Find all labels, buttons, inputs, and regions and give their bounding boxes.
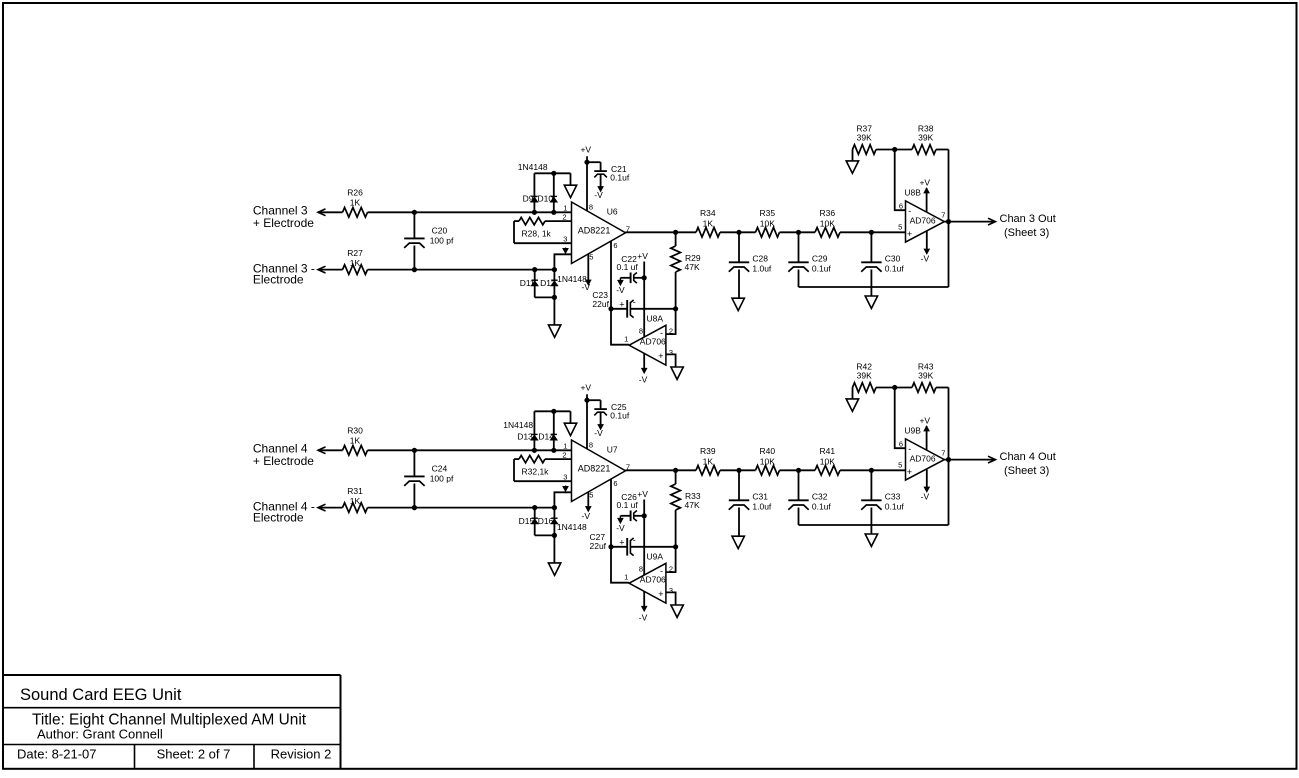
svg-text:D9: D9: [523, 194, 534, 204]
junction: [552, 505, 557, 510]
svg-text:-V: -V: [582, 282, 591, 292]
capacitor C33 0.1uf: [870, 470, 872, 500]
wire feedback vertical: [948, 150, 950, 288]
svg-text:3: 3: [563, 235, 567, 244]
svg-text:1K: 1K: [350, 496, 361, 506]
capacitor C32 0.1uf: [798, 470, 800, 500]
svg-text:Electrode: Electrode: [253, 273, 304, 287]
capacitor C26 0.1 uf: [634, 515, 644, 517]
svg-text:R35: R35: [760, 208, 776, 218]
svg-text:U9B: U9B: [904, 425, 921, 435]
wire: [368, 507, 555, 509]
svg-text:1: 1: [624, 335, 628, 344]
svg-text:22uf: 22uf: [590, 541, 607, 551]
wire to Chan 3 Out: [944, 221, 995, 223]
wire: [720, 469, 756, 471]
svg-text:-: -: [908, 206, 911, 216]
diode D16 1N4148: [553, 508, 555, 536]
svg-text:1K: 1K: [350, 197, 361, 207]
wire: [876, 387, 912, 389]
svg-text:-V: -V: [639, 613, 648, 623]
junction: [892, 147, 897, 152]
power -V U8A pin4: [643, 353, 645, 369]
svg-text:+V: +V: [919, 415, 930, 425]
resistor R28: [545, 220, 572, 222]
svg-text:6: 6: [613, 479, 617, 488]
junction: [673, 468, 678, 473]
svg-text:8: 8: [589, 203, 593, 212]
junction: [551, 171, 556, 176]
resistor R35 10K: [756, 228, 780, 238]
capacitor C24 100 pf: [413, 450, 415, 476]
ground: [865, 296, 877, 308]
svg-text:+V: +V: [637, 251, 648, 261]
wire: [780, 469, 816, 471]
junction: [796, 230, 801, 235]
svg-text:+: +: [907, 229, 912, 239]
svg-text:-V: -V: [639, 375, 648, 385]
wire: [368, 449, 572, 451]
svg-text:+V: +V: [637, 489, 648, 499]
junction: [673, 544, 678, 549]
capacitor C29 0.1uf: [798, 232, 800, 262]
capacitor C23 22uf: [611, 308, 627, 310]
junction: [551, 448, 556, 453]
wire in-amp pin6 down: [611, 241, 629, 345]
svg-text:3: 3: [563, 473, 567, 482]
resistor R36 10K: [815, 228, 840, 238]
junction output node: [946, 457, 951, 462]
node Channel 4 - input arrow: [318, 504, 326, 511]
junction: [532, 267, 537, 272]
svg-text:6: 6: [613, 241, 617, 250]
wire: [318, 507, 343, 509]
svg-text:D14: D14: [538, 432, 554, 442]
power -V in-amp pin5: [587, 254, 589, 281]
node Channel 4 + input arrow: [318, 447, 326, 454]
wire: [318, 269, 343, 271]
svg-text:1N4148: 1N4148: [518, 162, 548, 172]
wire: [318, 211, 343, 213]
ground: [846, 399, 858, 411]
junction: [642, 513, 647, 518]
power -V in-amp pin5: [587, 492, 589, 508]
svg-text:39K: 39K: [857, 371, 872, 381]
power -V U9A pin4: [643, 591, 645, 607]
junction: [412, 210, 417, 215]
svg-text:10K: 10K: [820, 456, 835, 466]
svg-text:AD8221: AD8221: [578, 464, 611, 474]
svg-text:1.0uf: 1.0uf: [752, 502, 772, 512]
op-amp U9B AD706: [906, 439, 945, 480]
resistor R27: [343, 265, 368, 275]
svg-text:3: 3: [669, 348, 673, 357]
svg-text:+V: +V: [580, 383, 591, 393]
op-amp U6 AD8221: [572, 202, 626, 264]
svg-text:AD706: AD706: [910, 215, 936, 225]
ground: [548, 325, 560, 337]
resistor R40 10K: [756, 466, 780, 476]
wire: [852, 388, 854, 399]
svg-text:R32,1k: R32,1k: [522, 467, 550, 477]
wire bottom diode rail: [535, 296, 555, 298]
svg-text:-: -: [660, 566, 663, 576]
junction: [796, 468, 801, 473]
junction: [532, 505, 537, 510]
svg-text:+ Electrode: + Electrode: [253, 216, 314, 230]
svg-text:3: 3: [669, 586, 673, 595]
svg-text:U9A: U9A: [647, 551, 664, 561]
wire top diode rail: [534, 172, 570, 174]
svg-text:-: -: [908, 444, 911, 454]
ground: [846, 161, 858, 173]
junction: [673, 230, 678, 235]
ground: [865, 534, 877, 546]
svg-text:1K: 1K: [350, 258, 361, 268]
wire: [780, 231, 816, 233]
op-amp U9A AD706: [629, 563, 666, 603]
svg-text:2: 2: [562, 451, 566, 460]
svg-text:8: 8: [639, 326, 643, 335]
svg-text:1K: 1K: [703, 456, 714, 466]
svg-text:5: 5: [898, 461, 902, 470]
wire: [626, 469, 697, 471]
svg-text:8: 8: [639, 564, 643, 573]
svg-text:47K: 47K: [685, 262, 700, 272]
capacitor C20 100 pf: [413, 212, 415, 238]
node Chan 4 Out arrow: [988, 456, 996, 463]
svg-text:22uf: 22uf: [592, 299, 609, 309]
svg-text:D12: D12: [540, 278, 556, 288]
junction: [584, 398, 589, 403]
svg-text:-V: -V: [921, 254, 930, 264]
svg-text:(Sheet 3): (Sheet 3): [1004, 465, 1049, 477]
svg-text:R26: R26: [347, 187, 363, 197]
svg-text:0.1uf: 0.1uf: [610, 410, 630, 420]
svg-text:5: 5: [589, 491, 593, 500]
pin 4 marker: [565, 248, 567, 251]
svg-text:+: +: [658, 351, 663, 361]
power -V U9B: [926, 469, 928, 488]
junction: [532, 448, 537, 453]
wire U9A pin3: [666, 592, 676, 605]
diode D12 1N4148: [553, 270, 555, 298]
svg-text:7: 7: [941, 449, 945, 458]
svg-text:C29: C29: [812, 253, 828, 263]
wire to Chan 4 Out: [944, 459, 995, 461]
junction: [532, 210, 537, 215]
diode D13 1N4148: [533, 411, 535, 450]
svg-text:D10: D10: [538, 194, 554, 204]
junction: [551, 409, 556, 414]
junction: [608, 306, 613, 311]
svg-text:39K: 39K: [918, 371, 933, 381]
wire in-amp pin4: [554, 492, 571, 507]
svg-text:+: +: [658, 589, 663, 599]
ground: [732, 298, 744, 310]
svg-text:0.1uf: 0.1uf: [885, 502, 905, 512]
resistor R37 39K: [853, 145, 877, 155]
svg-text:Date: 8-21-07: Date: 8-21-07: [17, 746, 97, 761]
junction: [608, 544, 613, 549]
svg-text:AD8221: AD8221: [578, 226, 611, 236]
svg-text:C24: C24: [432, 463, 448, 473]
capacitor C28 1.0uf: [738, 232, 740, 262]
ground: [671, 605, 683, 617]
capacitor C22 0.1 uf: [634, 277, 644, 279]
wire in-amp pin6 down: [611, 479, 629, 583]
svg-text:-: -: [633, 297, 636, 307]
svg-text:0.1uf: 0.1uf: [812, 264, 832, 274]
svg-text:Chan 4 Out: Chan 4 Out: [1000, 451, 1056, 463]
junction: [673, 306, 678, 311]
resistor R41 10K: [815, 466, 840, 476]
wire bottom rail: [799, 524, 949, 526]
wire: [368, 211, 572, 213]
svg-text:R34: R34: [700, 208, 716, 218]
wire pin6 branch: [895, 150, 906, 211]
junction: [736, 230, 741, 235]
ground: [671, 367, 683, 379]
diode D14 1N4148: [553, 411, 555, 450]
svg-text:Revision 2: Revision 2: [271, 746, 332, 761]
junction: [412, 267, 417, 272]
junction: [736, 468, 741, 473]
wire in-amp pin4: [554, 254, 571, 269]
svg-text:R27: R27: [347, 248, 363, 258]
svg-text:U7: U7: [607, 444, 618, 454]
wire: [720, 231, 756, 233]
svg-text:R31: R31: [347, 486, 363, 496]
ground: [548, 563, 560, 575]
resistor R32: [545, 458, 572, 460]
resistor R29 47K: [675, 232, 677, 246]
ground: [564, 185, 576, 197]
node Channel 3 - input arrow: [318, 266, 326, 273]
pin 4 marker: [565, 486, 567, 489]
wire ground stub: [870, 525, 872, 534]
svg-text:-V: -V: [594, 428, 603, 438]
junction: [551, 210, 556, 215]
wire U8A pin2 feedback: [666, 309, 676, 334]
wire U8A pin3: [666, 354, 676, 367]
diode D15 1N4148: [534, 508, 536, 536]
capacitor C27 22uf: [611, 546, 627, 548]
wire: [852, 150, 854, 161]
svg-text:R36: R36: [820, 208, 836, 218]
resistor R33 47K: [675, 470, 677, 484]
junction: [552, 267, 557, 272]
svg-text:+: +: [619, 300, 624, 310]
wire: [840, 469, 906, 471]
svg-text:10K: 10K: [760, 218, 775, 228]
svg-text:R39: R39: [700, 446, 716, 456]
svg-text:-V: -V: [582, 511, 591, 521]
resistor R30: [343, 446, 368, 456]
svg-text:1K: 1K: [703, 218, 714, 228]
wire top diode rail: [534, 410, 570, 412]
svg-text:2: 2: [562, 213, 566, 222]
junction: [584, 160, 589, 165]
svg-text:C30: C30: [885, 253, 901, 263]
svg-text:C28: C28: [752, 253, 768, 263]
svg-text:1K: 1K: [350, 435, 361, 445]
svg-text:Electrode: Electrode: [253, 511, 304, 525]
svg-text:-V: -V: [616, 285, 625, 295]
svg-text:C31: C31: [752, 491, 768, 501]
wire bottom diode rail: [535, 534, 555, 536]
wire U9A pin2 feedback: [666, 547, 676, 572]
ground: [564, 423, 576, 435]
svg-text:Sound Card EEG Unit: Sound Card EEG Unit: [20, 686, 182, 704]
svg-text:R41: R41: [820, 446, 836, 456]
wire: [840, 231, 906, 233]
svg-text:+ Electrode: + Electrode: [253, 454, 314, 468]
svg-text:1N4148: 1N4148: [503, 420, 533, 430]
svg-text:39K: 39K: [918, 133, 933, 143]
svg-text:R40: R40: [760, 446, 776, 456]
svg-text:Author: Grant Connell: Author: Grant Connell: [37, 727, 163, 742]
svg-text:100 pf: 100 pf: [430, 473, 454, 483]
resistor R34 1K: [696, 228, 720, 238]
op-amp U8B AD706: [906, 201, 945, 242]
wire: [318, 449, 343, 451]
svg-text:R30: R30: [347, 425, 363, 435]
svg-text:47K: 47K: [685, 500, 700, 510]
svg-text:U8A: U8A: [647, 313, 664, 323]
resistor R39 1K: [696, 466, 720, 476]
svg-text:1: 1: [624, 573, 628, 582]
svg-text:1: 1: [563, 442, 567, 451]
svg-text:7: 7: [941, 211, 945, 220]
svg-text:39K: 39K: [857, 133, 872, 143]
svg-text:D13: D13: [517, 432, 533, 442]
resistor R26: [343, 208, 368, 218]
wire: [936, 387, 949, 389]
svg-text:AD706: AD706: [910, 453, 936, 463]
wire feedback vertical: [948, 388, 950, 526]
svg-text:(Sheet 3): (Sheet 3): [1004, 227, 1049, 239]
svg-text:C20: C20: [432, 225, 448, 235]
svg-text:-: -: [660, 328, 663, 338]
capacitor C21 0.1uf: [587, 161, 601, 163]
svg-text:-V: -V: [616, 523, 625, 533]
svg-text:D15: D15: [519, 516, 535, 526]
svg-text:0.1 uf: 0.1 uf: [617, 500, 639, 510]
node Channel 3 + input arrow: [318, 209, 326, 216]
svg-text:10K: 10K: [760, 456, 775, 466]
node Chan 3 Out arrow: [988, 218, 996, 225]
junction: [552, 295, 557, 300]
wire: [368, 269, 555, 271]
junction: [412, 448, 417, 453]
svg-text:0.1uf: 0.1uf: [812, 502, 832, 512]
svg-text:0.1uf: 0.1uf: [610, 172, 630, 182]
svg-text:U6: U6: [607, 206, 618, 216]
svg-text:100 pf: 100 pf: [430, 235, 454, 245]
svg-text:C33: C33: [885, 491, 901, 501]
resistor R31: [343, 503, 368, 513]
svg-text:D11: D11: [520, 278, 535, 288]
svg-text:10K: 10K: [820, 218, 835, 228]
capacitor C30 0.1uf: [870, 232, 872, 262]
resistor R43 39K: [912, 383, 936, 393]
wire: [876, 149, 912, 151]
resistor R42 39K: [853, 383, 877, 393]
svg-text:U8B: U8B: [904, 187, 921, 197]
op-amp U7 AD8221: [572, 440, 626, 502]
svg-text:1N4148: 1N4148: [557, 522, 587, 532]
svg-text:R28, 1k: R28, 1k: [522, 229, 552, 239]
svg-text:1: 1: [563, 204, 567, 213]
junction: [869, 468, 874, 473]
svg-text:Chan 3 Out: Chan 3 Out: [1000, 213, 1056, 225]
title block frame: [2, 674, 341, 676]
op-amp U8A AD706: [629, 325, 666, 365]
svg-text:5: 5: [589, 253, 593, 262]
diode D9 1N4148: [533, 173, 535, 212]
junction: [642, 275, 647, 280]
wire: [936, 149, 949, 151]
svg-text:C32: C32: [812, 491, 828, 501]
svg-text:+: +: [907, 467, 912, 477]
junction: [552, 533, 557, 538]
capacitor C25 0.1uf: [587, 399, 601, 401]
svg-text:-: -: [633, 535, 636, 545]
svg-text:1.0uf: 1.0uf: [752, 264, 772, 274]
svg-text:6: 6: [899, 439, 903, 448]
wire ground stub: [870, 287, 872, 296]
ground: [732, 536, 744, 548]
capacitor C31 1.0uf: [738, 470, 740, 500]
svg-text:6: 6: [899, 201, 903, 210]
svg-text:+V: +V: [580, 145, 591, 155]
svg-text:-V: -V: [594, 190, 603, 200]
svg-text:8: 8: [589, 441, 593, 450]
svg-text:0.1uf: 0.1uf: [885, 264, 905, 274]
resistor R38 39K: [912, 145, 936, 155]
wire bottom rail: [799, 286, 949, 288]
junction output node: [946, 219, 951, 224]
junction: [869, 230, 874, 235]
svg-text:5: 5: [898, 223, 902, 232]
junction: [892, 385, 897, 390]
diode D10 1N4148: [553, 173, 555, 212]
power -V U8B: [926, 231, 928, 250]
svg-text:+: +: [619, 538, 624, 548]
wire: [626, 231, 697, 233]
svg-text:0.1 uf: 0.1 uf: [617, 262, 639, 272]
junction: [412, 505, 417, 510]
svg-text:D16: D16: [538, 516, 554, 526]
svg-text:Sheet: 2 of 7: Sheet: 2 of 7: [157, 746, 231, 761]
wire pin6 branch: [895, 388, 906, 449]
diode D11 1N4148: [534, 270, 536, 298]
svg-text:+V: +V: [919, 177, 930, 187]
svg-text:-V: -V: [921, 492, 930, 502]
